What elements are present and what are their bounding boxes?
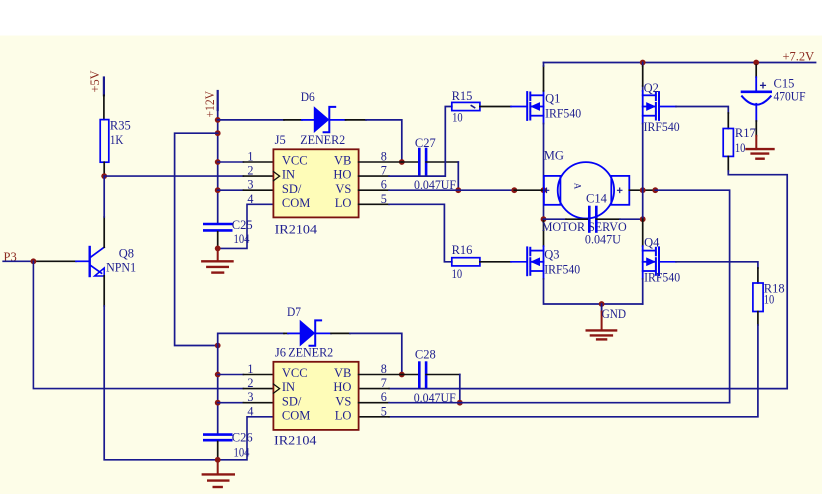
svg-text:VS: VS bbox=[335, 394, 351, 408]
node C25 ground bbox=[215, 246, 221, 252]
node motor right top bbox=[640, 187, 646, 193]
ground under C26 bbox=[203, 460, 234, 487]
wire R15 to Q1 gate bbox=[480, 106, 511, 108]
wire C15 to ground bbox=[755, 121, 757, 136]
power +5V bbox=[88, 71, 104, 96]
svg-text:1: 1 bbox=[247, 150, 253, 164]
svg-text:IN: IN bbox=[282, 168, 295, 182]
wire Q8 collector bbox=[103, 217, 105, 247]
node C14 right bbox=[640, 216, 646, 222]
wire C26 bottom pin bbox=[217, 442, 219, 460]
svg-text:IRF540: IRF540 bbox=[644, 270, 680, 284]
svg-text:1: 1 bbox=[247, 362, 253, 376]
svg-text:0.047U: 0.047U bbox=[585, 232, 621, 246]
svg-text:5: 5 bbox=[381, 404, 387, 418]
pin numbers J6 bbox=[247, 362, 386, 418]
node D6/VB bbox=[399, 159, 405, 165]
diode D6 bbox=[218, 90, 402, 162]
ic J6 IR2104 bbox=[273, 346, 358, 448]
wire Q3 source / gnd run bbox=[544, 279, 643, 304]
svg-text:IR2104: IR2104 bbox=[275, 223, 318, 237]
wire J5 pin3 bbox=[218, 189, 244, 191]
node motor left pin bbox=[511, 187, 517, 193]
svg-text:ZENER2: ZENER2 bbox=[288, 345, 333, 359]
wire Q2 gate to R17 bbox=[659, 106, 676, 108]
transistor Q2 bbox=[643, 81, 680, 134]
node C14 left bbox=[541, 216, 547, 222]
svg-text:A: A bbox=[573, 183, 583, 190]
capacitor C15 bbox=[742, 65, 806, 121]
wire Q4 drain bbox=[642, 219, 644, 246]
node motor right pin end bbox=[652, 187, 658, 193]
wire Q1 drain to rail bbox=[543, 66, 545, 91]
transistor Q4 bbox=[643, 235, 680, 284]
svg-text:3: 3 bbox=[247, 390, 253, 404]
diode D7 bbox=[218, 305, 402, 375]
wire J5 pin5 to R16 bbox=[359, 203, 389, 205]
wire Q1 source down bbox=[543, 124, 545, 191]
node +12V/D6 bbox=[215, 117, 221, 123]
svg-text:HO: HO bbox=[333, 168, 351, 182]
svg-text:R17: R17 bbox=[735, 126, 756, 140]
svg-text:3: 3 bbox=[247, 178, 253, 192]
svg-text:+12V: +12V bbox=[203, 91, 217, 118]
svg-text:7: 7 bbox=[381, 376, 387, 390]
svg-text:4: 4 bbox=[247, 192, 253, 206]
wire R35 bottom pin bbox=[103, 162, 105, 176]
wire J5 pin1 bbox=[218, 161, 244, 163]
svg-text:104: 104 bbox=[234, 445, 251, 459]
svg-text:R35: R35 bbox=[110, 118, 131, 132]
svg-text:2: 2 bbox=[247, 164, 253, 178]
svg-text:MG: MG bbox=[544, 149, 564, 163]
svg-text:C28: C28 bbox=[415, 348, 436, 362]
svg-text:C25: C25 bbox=[232, 218, 253, 232]
svg-text:Q3: Q3 bbox=[544, 248, 559, 262]
power +12V bbox=[203, 91, 218, 118]
wire Q2/Q4 mid bbox=[642, 190, 644, 219]
transistor Q1 bbox=[527, 91, 581, 124]
ic J5 IR2104 bbox=[273, 133, 358, 237]
wire motor left pin bbox=[514, 189, 544, 191]
wire C28 tap to VS bbox=[459, 375, 461, 403]
transistor Q3 bbox=[527, 246, 580, 279]
svg-text:R16: R16 bbox=[452, 243, 473, 257]
svg-text:10: 10 bbox=[735, 141, 746, 155]
svg-text:D7: D7 bbox=[287, 305, 301, 319]
capacitor C14 bbox=[544, 192, 643, 247]
svg-text:Q2: Q2 bbox=[644, 81, 659, 95]
svg-text:COM: COM bbox=[282, 408, 310, 422]
wire C25 bottom pin bbox=[217, 232, 219, 249]
svg-text:10: 10 bbox=[764, 293, 775, 307]
wire C27 tap to VS bbox=[457, 162, 459, 190]
svg-text:1K: 1K bbox=[110, 133, 124, 147]
svg-text:IN: IN bbox=[282, 380, 295, 394]
wire Q4 gate to R18 bbox=[659, 261, 676, 263]
svg-text:IR2104: IR2104 bbox=[274, 434, 317, 448]
wire J6 pin6 VS bbox=[359, 402, 389, 404]
wire Q4 source down bbox=[642, 279, 644, 304]
wire J5 pin6 VS bbox=[359, 189, 389, 191]
node +12V branch feed bbox=[215, 130, 221, 136]
svg-text:VCC: VCC bbox=[282, 366, 308, 380]
svg-text:C27: C27 bbox=[415, 136, 436, 150]
wire P3 drop to J6 IN bbox=[33, 261, 243, 388]
svg-text:4: 4 bbox=[247, 404, 253, 418]
svg-text:J6: J6 bbox=[275, 346, 286, 360]
transistor Q8 bbox=[90, 246, 136, 276]
node rail/C15 bbox=[753, 60, 759, 66]
wire J5 pin7 to R15 bbox=[359, 175, 389, 177]
wire IN row to J5 pin2 bbox=[104, 175, 243, 177]
wire R17 to J6 HO bbox=[727, 156, 729, 171]
svg-text:R15: R15 bbox=[452, 89, 473, 103]
wire Q2 source down bbox=[642, 124, 644, 191]
resistor R16 bbox=[452, 243, 480, 281]
wire J6 VCC bus bbox=[217, 346, 219, 435]
node R35/Q8/IN junction bbox=[101, 173, 107, 179]
svg-text:2: 2 bbox=[247, 376, 253, 390]
wire +7.2V rail bbox=[544, 62, 816, 64]
node rail/Q2 bbox=[640, 60, 646, 66]
wire R16 to Q3 gate bbox=[480, 261, 511, 263]
svg-text:SD/: SD/ bbox=[282, 394, 302, 408]
svg-text:C14: C14 bbox=[586, 192, 608, 206]
svg-text:J5: J5 bbox=[275, 133, 286, 147]
wire Q8 base pin bbox=[33, 260, 76, 262]
svg-text:104: 104 bbox=[234, 232, 251, 246]
svg-text:Q4: Q4 bbox=[644, 235, 660, 249]
svg-text:IRF540: IRF540 bbox=[644, 120, 680, 134]
capacitor C26 bbox=[204, 431, 252, 460]
svg-text:Q8: Q8 bbox=[119, 246, 134, 260]
node GND tap bbox=[599, 301, 605, 307]
svg-text:D6: D6 bbox=[301, 90, 315, 104]
svg-text:GND: GND bbox=[602, 307, 627, 321]
node motor left top bbox=[541, 187, 547, 193]
resistor R18 bbox=[753, 282, 785, 312]
ground under C15 bbox=[747, 136, 774, 159]
ground under C25 bbox=[202, 248, 232, 272]
capacitor C25 bbox=[204, 218, 252, 246]
svg-text:10: 10 bbox=[452, 111, 463, 125]
svg-text:VB: VB bbox=[334, 154, 351, 168]
wire motor right pin bbox=[629, 189, 655, 191]
wire feed to J6 bus bbox=[175, 133, 218, 345]
capacitor C28 bbox=[402, 348, 460, 405]
wire J6 pin4 COM drop bbox=[220, 417, 273, 460]
svg-text:NPN1: NPN1 bbox=[106, 261, 136, 275]
svg-text:C26: C26 bbox=[232, 431, 253, 445]
wire Q1/Q3 mid bbox=[543, 190, 545, 219]
wire J6 pin8 bbox=[359, 374, 402, 376]
wire J6 pin1 bbox=[218, 374, 244, 376]
resistor R15 bbox=[452, 89, 480, 125]
svg-text:HO: HO bbox=[333, 380, 351, 394]
capacitor C27 bbox=[402, 136, 459, 192]
node C27/VS bbox=[455, 187, 461, 193]
svg-text:LO: LO bbox=[335, 408, 352, 422]
resistor R17 bbox=[723, 126, 756, 156]
pin numbers J5 bbox=[247, 150, 386, 206]
svg-text:VCC: VCC bbox=[282, 154, 308, 168]
svg-text:SD/: SD/ bbox=[282, 182, 302, 196]
node P3 junction bbox=[31, 258, 37, 264]
power GND bbox=[587, 304, 626, 339]
svg-text:LO: LO bbox=[335, 196, 352, 210]
motor MG MOTOR SERVO bbox=[542, 149, 630, 234]
wire +12V bus upper bbox=[217, 108, 219, 224]
node D7/VB bbox=[399, 372, 405, 378]
svg-text:IRF540: IRF540 bbox=[545, 107, 581, 121]
svg-text:VB: VB bbox=[334, 366, 351, 380]
svg-text:IRF540: IRF540 bbox=[544, 262, 580, 276]
resistor R35 bbox=[100, 118, 131, 162]
wire motor right to J6 VS bbox=[655, 190, 729, 403]
svg-text:470UF: 470UF bbox=[774, 89, 806, 103]
wire Q3 drain bbox=[543, 219, 545, 246]
wire R18 to J6 LO bbox=[757, 312, 759, 326]
port P3 bbox=[3, 250, 33, 264]
node J6 pin1 bbox=[215, 372, 221, 378]
wire J6 pin3 bbox=[218, 402, 244, 404]
svg-text:+5V: +5V bbox=[88, 71, 102, 93]
wire R35 top pin bbox=[103, 95, 105, 119]
svg-text:VS: VS bbox=[335, 182, 351, 196]
node J6 pin3 bbox=[215, 400, 221, 406]
wire Q8 emitter to gnd bus bbox=[103, 276, 105, 306]
svg-text:+7.2V: +7.2V bbox=[783, 50, 815, 64]
svg-text:ZENER2: ZENER2 bbox=[300, 133, 345, 147]
wire J5 pin4 COM drop bbox=[220, 204, 273, 248]
node C26 ground bbox=[215, 457, 221, 463]
wire J5 pin8 bbox=[359, 161, 402, 163]
svg-text:10: 10 bbox=[452, 267, 463, 281]
svg-text:Q1: Q1 bbox=[545, 91, 560, 105]
node SD pin3 bbox=[215, 187, 221, 193]
node C28/VS bbox=[457, 400, 463, 406]
node J6 VCC bus top bbox=[215, 343, 221, 349]
svg-text:COM: COM bbox=[282, 196, 310, 210]
node VCC pin1 bbox=[215, 159, 221, 165]
wire Q2 drain bbox=[642, 63, 644, 91]
